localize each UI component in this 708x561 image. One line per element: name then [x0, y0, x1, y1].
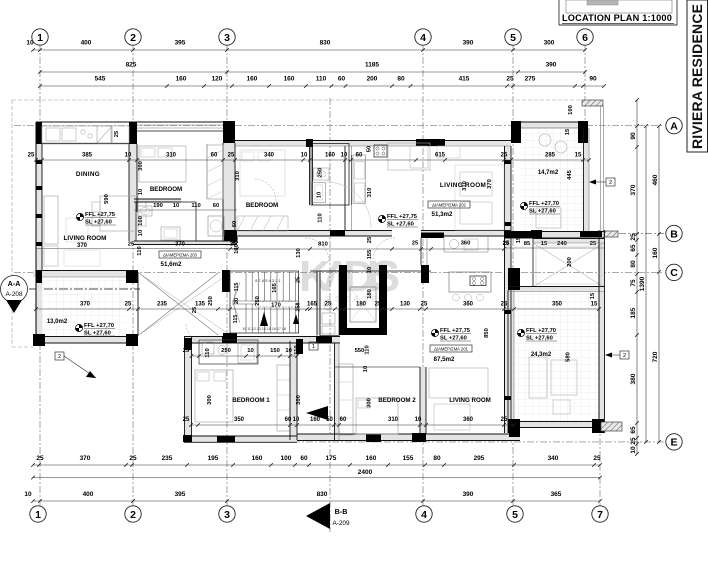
horizontal grid lines rows A,B,C,E [14, 125, 664, 127]
svg-text:850: 850 [484, 328, 490, 338]
svg-text:400: 400 [83, 491, 94, 498]
corridor north wall [237, 230, 392, 232]
svg-text:51,6m2: 51,6m2 [161, 261, 183, 268]
wc room [320, 271, 339, 336]
svg-text:10: 10 [363, 366, 369, 372]
room147 top wall [511, 121, 588, 123]
apt201 south wall [184, 435, 297, 437]
svg-text:160: 160 [247, 76, 258, 83]
section line A-A [14, 288, 140, 290]
svg-text:395: 395 [175, 491, 186, 498]
svg-text:160: 160 [366, 455, 377, 462]
svg-text:110: 110 [191, 203, 200, 209]
svg-text:24,3m2: 24,3m2 [531, 352, 552, 358]
wall black row B seg2 [580, 231, 602, 237]
detail tag 1 apt201 [309, 342, 318, 350]
stair west wall [137, 272, 139, 336]
svg-text:155: 155 [403, 455, 414, 462]
grid bubble top 3 [219, 29, 235, 45]
svg-text:395: 395 [175, 40, 186, 47]
grid bubble bottom 7 [592, 506, 608, 522]
svg-text:80: 80 [397, 76, 405, 83]
svg-text:165: 165 [272, 282, 278, 292]
svg-text:1: 1 [37, 32, 43, 44]
entrance arrow apt201 [306, 406, 328, 420]
svg-text:115: 115 [233, 315, 239, 324]
svg-text:300: 300 [296, 395, 302, 405]
svg-text:300: 300 [544, 40, 555, 47]
svg-text:300: 300 [367, 398, 373, 408]
svg-text:SL +27,60: SL +27,60 [526, 335, 553, 341]
kitchen apt202 [353, 155, 366, 204]
svg-text:200: 200 [367, 76, 378, 83]
kitchen counter apt201 [444, 237, 488, 253]
inner dimension chain upper [36, 159, 589, 161]
wall between dining and bedroom [128, 144, 130, 241]
svg-text:25: 25 [128, 242, 135, 248]
inner dimension chain entry [192, 355, 298, 357]
window ticks west wall [36, 160, 42, 164]
apt201 north wall black seg1 [222, 336, 237, 343]
svg-text:275: 275 [525, 76, 536, 83]
apt201 south wall 2 [297, 433, 520, 435]
svg-text:160: 160 [252, 455, 263, 462]
svg-text:160: 160 [652, 247, 659, 258]
bedroom2 west wardrobe [339, 364, 353, 435]
svg-text:FFL +27,70: FFL +27,70 [526, 328, 556, 334]
svg-text:135: 135 [195, 302, 206, 308]
sofa apt201 [429, 368, 488, 398]
svg-text:25: 25 [325, 302, 332, 308]
sofa apt202 [437, 146, 460, 158]
window ticks east wall [505, 160, 512, 164]
svg-text:LOCATION PLAN 1:1000: LOCATION PLAN 1:1000 [562, 13, 672, 23]
inner dimension chain lower [191, 424, 514, 426]
grid bubble bottom 5 [507, 506, 523, 522]
svg-text:615: 615 [435, 153, 446, 159]
washing machine [208, 216, 224, 236]
svg-text:4: 4 [420, 32, 426, 44]
grid bubble top 5 [505, 29, 521, 45]
room147 east wall [583, 128, 585, 231]
svg-text:25: 25 [593, 455, 601, 462]
bathroom apt203 [136, 202, 196, 241]
wall black bottom seg2 [412, 433, 426, 442]
apt202 top wall black seg [416, 139, 445, 146]
svg-text:25: 25 [228, 153, 235, 159]
right dimension chain 2 [658, 126, 660, 442]
svg-text:FFL +27,70: FFL +27,70 [84, 323, 114, 329]
svg-text:90: 90 [589, 76, 597, 83]
corridor wall seg black 2 [421, 233, 444, 239]
apt202 east wall [504, 146, 506, 433]
level marker room147 [520, 202, 527, 209]
wall pier room243 se [592, 419, 604, 433]
svg-text:8 7 6 5 4 3 2 1: 8 7 6 5 4 3 2 1 [255, 278, 281, 283]
svg-text:5: 5 [510, 32, 516, 44]
svg-text:310: 310 [235, 171, 241, 181]
svg-text:SL +27,60: SL +27,60 [85, 219, 112, 225]
svg-text:BEDROOM: BEDROOM [246, 202, 278, 209]
wc fixtures apt202 [314, 168, 329, 180]
svg-text:580: 580 [566, 352, 572, 362]
svg-text:10: 10 [415, 417, 422, 423]
svg-text:15: 15 [575, 153, 582, 159]
svg-text:5: 5 [512, 509, 518, 521]
grid bubble row B [666, 225, 682, 241]
top dimension chain 2 [40, 71, 585, 73]
wall poche fills [36, 122, 42, 346]
detail tag 2 balcony [55, 352, 64, 360]
svg-text:25: 25 [183, 348, 190, 354]
svg-text:60: 60 [213, 203, 219, 209]
kitchen unit 2 apt203 [112, 126, 129, 143]
svg-text:25: 25 [234, 236, 240, 243]
svg-text:LIVING ROOM: LIVING ROOM [449, 397, 491, 404]
svg-text:150: 150 [270, 348, 280, 354]
wall black bedroom1 ne [296, 339, 303, 354]
grid bubble row C [666, 264, 682, 280]
svg-text:A: A [670, 120, 678, 132]
svg-text:C: C [670, 267, 678, 279]
svg-text:51,3m2: 51,3m2 [432, 211, 454, 218]
wardrobe strip 203 [207, 145, 223, 199]
wall pier terrace [531, 230, 542, 238]
level marker living 203 [76, 213, 83, 220]
svg-text:10: 10 [24, 491, 32, 498]
svg-text:310: 310 [367, 188, 373, 198]
svg-text:310: 310 [388, 417, 399, 423]
svg-text:25: 25 [296, 277, 302, 283]
svg-text:BEDROOM 1: BEDROOM 1 [232, 397, 270, 404]
grid bubble top 1 [32, 29, 48, 45]
svg-text:6: 6 [582, 32, 588, 44]
svg-text:10: 10 [367, 267, 373, 273]
dashed roof outline [12, 99, 583, 101]
svg-text:1: 1 [35, 509, 41, 521]
svg-text:370: 370 [77, 243, 88, 249]
grid bubble row A [666, 117, 682, 133]
stair outline [230, 271, 299, 333]
svg-text:545: 545 [95, 76, 106, 83]
wall pier balcony top-right [126, 271, 138, 283]
svg-text:15: 15 [516, 236, 522, 243]
wc west wall [316, 271, 318, 336]
stairwell void X [139, 273, 218, 335]
svg-text:390: 390 [463, 491, 474, 498]
wall pier stair left-top [222, 270, 230, 292]
svg-text:10: 10 [630, 446, 637, 454]
svg-text:380: 380 [630, 373, 637, 384]
svg-text:180: 180 [356, 302, 367, 308]
svg-text:4: 4 [421, 509, 427, 521]
svg-text:90: 90 [630, 132, 637, 140]
svg-text:80: 80 [630, 260, 637, 268]
svg-text:100: 100 [281, 455, 292, 462]
svg-text:3: 3 [224, 509, 230, 521]
bottom dimension chain 1 [33, 464, 600, 466]
svg-text:SL +27,60: SL +27,60 [529, 208, 556, 214]
svg-text:340: 340 [548, 455, 559, 462]
svg-text:SL +27,60: SL +27,60 [387, 221, 414, 227]
wall kitchen thin [420, 238, 422, 265]
svg-text:FFL +27,75: FFL +27,75 [440, 328, 471, 334]
door arcs [186, 323, 206, 343]
svg-text:415: 415 [459, 76, 470, 83]
svg-text:185: 185 [630, 307, 637, 318]
svg-text:25: 25 [630, 233, 637, 241]
elevator shaft wall right [379, 265, 387, 335]
wall pier apt201 nw [184, 338, 192, 350]
bottom dimension chain 2 [33, 477, 600, 479]
wall pier balcony bottom-right [126, 334, 138, 346]
right dimension chain overall [645, 126, 647, 442]
east parapet hatch bottom [601, 422, 622, 431]
corridor wall seg black [330, 230, 345, 236]
elevator shaft wall bottom [339, 328, 387, 335]
svg-text:25: 25 [114, 130, 120, 137]
wall black vertical kitchen [421, 265, 429, 283]
wall living room south (balcony top) [36, 270, 138, 272]
svg-text:110: 110 [364, 345, 370, 354]
svg-text:130: 130 [400, 302, 411, 308]
svg-text:195: 195 [208, 455, 219, 462]
wall pier apt201 sw [183, 435, 192, 442]
east parapet hatch row B [604, 231, 618, 237]
svg-text:25: 25 [125, 302, 132, 308]
svg-text:25: 25 [506, 76, 514, 83]
svg-text:25: 25 [630, 437, 637, 445]
svg-text:FFL +27,70: FFL +27,70 [529, 201, 559, 207]
svg-text:25: 25 [367, 236, 373, 243]
kitchen island apt201 [449, 272, 491, 292]
balcony tile floor [42, 277, 126, 337]
apartment box 202 [428, 201, 470, 208]
vertical grid lines cols 1-7 and section B-B [39, 44, 41, 506]
wall pier balcony bottom-left [33, 334, 45, 346]
svg-text:SL +27,60: SL +27,60 [440, 335, 467, 341]
terrace X [533, 243, 604, 287]
level marker room243 [517, 329, 524, 336]
svg-text:SL +27,60: SL +27,60 [84, 330, 111, 336]
bedroom1 east wall [289, 341, 291, 440]
elevator cab [350, 287, 376, 322]
bed bedroom 203 [139, 146, 186, 182]
svg-text:RIVIERA RESIDENCE: RIVIERA RESIDENCE [689, 4, 705, 149]
wall pier col2 top [129, 122, 137, 144]
svg-text:810: 810 [318, 242, 328, 248]
svg-text:25: 25 [421, 302, 428, 308]
svg-text:50: 50 [326, 417, 333, 423]
section marker B-B [306, 503, 330, 529]
svg-text:25: 25 [129, 455, 137, 462]
grid bubble top 6 [577, 29, 593, 45]
svg-text:830: 830 [317, 491, 328, 498]
inner dimension chain corridor [230, 248, 504, 250]
svg-text:2: 2 [609, 180, 612, 186]
grid bubble bottom 1 [30, 506, 46, 522]
svg-text:60: 60 [356, 153, 363, 159]
grid bubble bottom 4 [416, 506, 432, 522]
svg-text:ΔΙΑΜΕΡΙΣΜΑ 201: ΔΙΑΜΕΡΙΣΜΑ 201 [434, 346, 468, 351]
svg-text:25: 25 [36, 455, 44, 462]
svg-text:170: 170 [271, 303, 281, 309]
svg-text:250: 250 [296, 303, 302, 312]
bedroom2 north wall [335, 366, 421, 368]
apartment box 201 [430, 345, 472, 352]
svg-text:360: 360 [463, 302, 474, 308]
armchairs room147 [539, 134, 551, 146]
svg-text:10: 10 [173, 203, 179, 209]
east balcony rail top [600, 106, 602, 232]
svg-text:2: 2 [58, 354, 61, 360]
apt202 west wall [344, 146, 346, 230]
svg-text:10: 10 [316, 192, 322, 198]
svg-text:370: 370 [80, 455, 91, 462]
svg-text:250: 250 [255, 296, 261, 306]
svg-text:BEDROOM 2: BEDROOM 2 [378, 397, 416, 404]
furniture room243 [529, 357, 547, 398]
bedroom1 wardrobe [277, 365, 290, 431]
svg-text:10: 10 [293, 417, 300, 423]
svg-text:3: 3 [224, 32, 230, 44]
svg-text:15: 15 [591, 302, 598, 308]
svg-text:720: 720 [652, 351, 659, 362]
wall bedroom east x223 [222, 143, 224, 241]
svg-text:1185: 1185 [365, 62, 379, 69]
svg-text:310: 310 [166, 153, 177, 159]
top dimension chain 1 [33, 49, 585, 51]
svg-text:15: 15 [590, 292, 596, 299]
wall pier col5 mid [508, 268, 520, 290]
level marker apt201 [431, 329, 438, 336]
svg-text:10 11 12 13 14 15 16 17 1: 10 11 12 13 14 15 16 17 18 [242, 327, 286, 331]
svg-text:175: 175 [326, 455, 337, 462]
svg-text:10: 10 [301, 153, 308, 159]
svg-text:390: 390 [463, 40, 474, 47]
svg-text:460: 460 [652, 174, 659, 185]
svg-text:15: 15 [516, 131, 522, 138]
svg-text:87,5m2: 87,5m2 [434, 356, 456, 363]
svg-text:7: 7 [597, 509, 603, 521]
room147 tile floor [521, 128, 584, 231]
dim chain under living [36, 248, 237, 250]
svg-text:350: 350 [234, 417, 245, 423]
svg-text:350: 350 [552, 302, 563, 308]
svg-text:300: 300 [207, 395, 213, 405]
svg-text:10: 10 [138, 230, 144, 236]
svg-text:390: 390 [546, 62, 557, 69]
grid bubble top 4 [415, 29, 431, 45]
svg-text:A-208: A-208 [5, 291, 22, 298]
svg-text:14,7m2: 14,7m2 [538, 170, 559, 176]
svg-text:10: 10 [285, 348, 291, 354]
svg-text:LIVING ROOM: LIVING ROOM [440, 182, 486, 189]
bathroom 1 apt202 [311, 144, 349, 206]
svg-text:25: 25 [501, 417, 508, 423]
svg-text:20: 20 [234, 298, 240, 304]
room243 north wall [508, 286, 604, 288]
wall pier col1 top [36, 122, 42, 144]
svg-text:25: 25 [183, 417, 190, 423]
svg-text:A-A: A-A [8, 279, 21, 288]
svg-text:365: 365 [551, 491, 562, 498]
dining table [100, 196, 138, 231]
corridor south wall [310, 270, 431, 272]
svg-text:200: 200 [567, 257, 573, 267]
svg-text:590: 590 [104, 194, 110, 204]
svg-text:25: 25 [503, 241, 510, 247]
svg-text:340: 340 [264, 153, 275, 159]
svg-text:110: 110 [137, 246, 143, 255]
bed bedroom1 [195, 370, 233, 422]
svg-text:370: 370 [630, 184, 637, 195]
svg-text:110: 110 [205, 348, 211, 357]
svg-text:295: 295 [474, 455, 485, 462]
svg-text:LIVING ROOM: LIVING ROOM [64, 235, 107, 242]
svg-text:385: 385 [82, 153, 93, 159]
svg-text:25: 25 [375, 302, 382, 308]
apt201 west wall [184, 337, 186, 442]
east parapet hatch top [582, 100, 603, 106]
svg-text:50: 50 [367, 146, 373, 152]
balcony 13,0m2 south wall [33, 336, 138, 338]
svg-text:ΔΙΑΜΕΡΙΣΜΑ 203: ΔΙΑΜΕΡΙΣΜΑ 203 [163, 252, 197, 257]
svg-text:370: 370 [487, 179, 493, 189]
svg-text:FFL +27,75: FFL +27,75 [85, 212, 116, 218]
stair direction arrows [260, 312, 268, 326]
wall black apt203 corridor [224, 230, 237, 241]
svg-text:250: 250 [221, 348, 231, 354]
svg-text:10: 10 [138, 189, 144, 195]
svg-text:370: 370 [175, 242, 185, 248]
wall pier balcony top-left [36, 270, 42, 283]
svg-text:85: 85 [524, 241, 531, 247]
svg-text:80: 80 [433, 455, 441, 462]
svg-text:60: 60 [285, 417, 292, 423]
sofa living room 203 [44, 196, 58, 244]
window band top x137-223 [137, 121, 223, 123]
svg-text:ΔΙΑΜΕΡΙΣΜΑ 202: ΔΙΑΜΕΡΙΣΜΑ 202 [432, 202, 466, 207]
kitchen wall apt202 [351, 155, 353, 205]
wardrobe bedroom 203 [237, 216, 288, 231]
room243 tile floor [514, 292, 599, 422]
inner dimension chain middle [36, 308, 599, 310]
wall bedroom203 south [134, 198, 181, 200]
svg-text:BEDROOM: BEDROOM [150, 186, 182, 193]
svg-text:250: 250 [318, 168, 324, 178]
svg-text:110: 110 [316, 76, 327, 83]
room243 east wall [598, 230, 600, 433]
bedroom2 west wall [334, 343, 336, 440]
svg-text:B-B: B-B [335, 507, 348, 516]
room147 south wall [504, 231, 604, 233]
svg-text:60: 60 [340, 417, 347, 423]
svg-text:DINING: DINING [76, 171, 100, 178]
svg-text:100: 100 [568, 105, 574, 115]
svg-text:300: 300 [138, 161, 144, 171]
svg-text:160: 160 [310, 417, 321, 423]
svg-text:2: 2 [130, 509, 136, 521]
terrace dim chain [504, 247, 604, 249]
wall apt203 south y241 [134, 240, 237, 242]
svg-text:830: 830 [320, 40, 331, 47]
svg-text:FFL +27,75: FFL +27,75 [387, 214, 418, 220]
dim chain bathroom [134, 209, 237, 211]
bottom dimension chain 3 [33, 500, 600, 502]
svg-text:235: 235 [157, 302, 168, 308]
wall pier stair left-bottom [223, 333, 237, 340]
